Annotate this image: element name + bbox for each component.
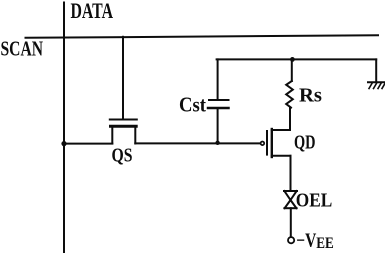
- wire QS gate lead from SCAN: [122, 37, 124, 119]
- wire Cst top lead: [217, 59, 219, 99]
- transistor QD source lead: [272, 156, 291, 168]
- wire QD source down to OEL: [290, 156, 292, 191]
- svg-text:Rs: Rs: [299, 84, 322, 106]
- transistor QD gate bubble: [261, 142, 265, 146]
- svg-text:SCAN: SCAN: [1, 37, 44, 61]
- wire Cst bottom lead: [217, 109, 219, 144]
- wire OEL to VEE terminal: [290, 208, 292, 236]
- diode OEL lower triangle: [285, 200, 297, 208]
- wire Rs top lead: [291, 59, 293, 81]
- diode OEL bottom bar: [284, 207, 296, 209]
- transistor QD gate bar: [266, 131, 268, 155]
- svg-text:DATA: DATA: [71, 0, 114, 23]
- ground bar: [368, 81, 385, 83]
- terminal circle -VEE: [288, 237, 294, 243]
- wire node line (Cst-Rs-ground): [217, 58, 377, 60]
- transistor QS left leg: [111, 126, 113, 143]
- svg-text:OEL: OEL: [296, 190, 333, 212]
- wire Rs bottom to QD drain: [289, 108, 291, 130]
- svg-text:QS: QS: [112, 146, 133, 167]
- diode OEL top bar: [284, 190, 297, 192]
- wire SCAN horizontal line: [26, 35, 379, 38]
- wire DATA vertical line: [63, 3, 65, 253]
- junction dot Cst bottom node: [215, 141, 219, 145]
- junction dot Rs top node: [290, 57, 295, 62]
- junction dot DATA/QS source: [61, 141, 66, 146]
- diode OEL upper triangle: [284, 191, 296, 200]
- wire QS source lead to DATA: [64, 143, 112, 145]
- transistor QS right leg: [134, 126, 136, 143]
- ground hatch strokes: [369, 83, 385, 89]
- wire ground lead down: [375, 59, 377, 81]
- resistor Rs zigzag: [286, 81, 293, 108]
- transistor QS gate plate: [110, 119, 137, 121]
- svg-text:Cst: Cst: [179, 92, 206, 116]
- svg-text:QD: QD: [294, 132, 316, 153]
- transistor QD channel bar: [271, 129, 273, 157]
- capacitor Cst bottom plate: [208, 107, 229, 110]
- wire QS drain to QD gate: [135, 142, 260, 144]
- transistor QD drain lead: [272, 112, 290, 130]
- transistor QS channel bar: [111, 125, 137, 128]
- capacitor Cst top plate: [209, 99, 229, 101]
